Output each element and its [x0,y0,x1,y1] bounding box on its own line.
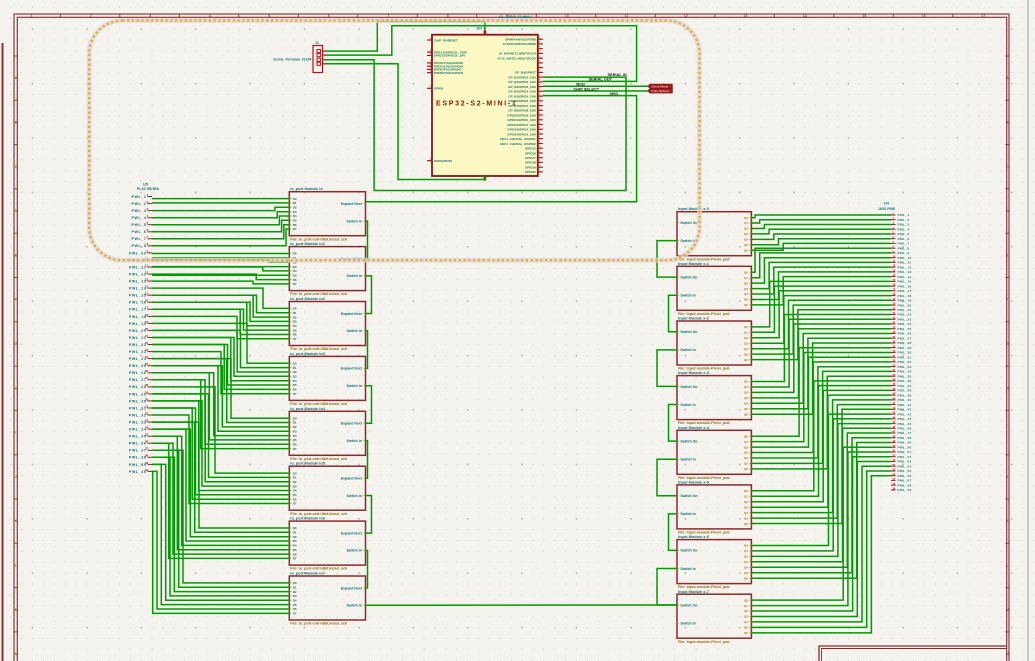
svg-text:D0: D0 [293,252,297,256]
svg-text:D7: D7 [293,337,297,341]
svg-text:PWL_25: PWL_25 [129,364,147,368]
svg-text:Input Module x-3: Input Module x-3 [678,370,710,375]
svg-text:GP_B3/GPIO3_CH0: GP_B3/GPIO3_CH0 [508,85,536,89]
svg-text:PWL_3: PWL_3 [131,209,146,213]
svg-text:Q0: Q0 [744,216,748,220]
svg-text:PWL_13: PWL_13 [129,280,147,284]
svg-text:GPIO19: GPIO19 [525,166,536,170]
svg-text:Q6: Q6 [744,249,748,253]
svg-text:PML_25: PML_25 [898,327,912,331]
svg-text:PML_37: PML_37 [898,384,912,388]
svg-text:GP_B4/GPNST: GP_B4/GPNST [515,71,536,75]
svg-text:PML_31: PML_31 [898,355,912,359]
svg-text:ESP32-S2-MINI-1: ESP32-S2-MINI-1 [436,101,518,108]
svg-text:PML_12: PML_12 [898,265,912,269]
svg-text:PWL_19: PWL_19 [129,322,147,326]
svg-text:D1: D1 [293,531,297,535]
svg-text:Switch In: Switch In [680,567,695,571]
svg-text:Q4: Q4 [744,347,748,351]
svg-text:M: M [15,608,18,612]
svg-text:io_port Module io2: io_port Module io2 [290,296,325,301]
svg-text:B: B [1006,121,1009,125]
svg-text:GP_B7/GPIO7_CH0: GP_B7/GPIO7_CH0 [508,104,536,108]
svg-text:PWL_17: PWL_17 [129,308,147,312]
svg-text:PWL_1: PWL_1 [131,195,146,199]
svg-text:PML_55: PML_55 [898,469,912,473]
svg-text:D3: D3 [293,320,297,324]
svg-text:Switch In: Switch In [680,348,695,352]
svg-text:Q1: Q1 [744,549,748,553]
svg-text:Q6: Q6 [744,358,748,362]
svg-text:PML_30: PML_30 [898,351,912,355]
svg-text:D5: D5 [293,219,297,223]
svg-text:PML_3: PML_3 [898,223,910,227]
svg-text:io_port Module io: io_port Module io [290,186,323,191]
svg-text:PML_53: PML_53 [898,460,912,464]
svg-text:10: 10 [565,14,569,18]
svg-text:Q5: Q5 [744,352,748,356]
svg-text:K: K [15,519,18,523]
svg-text:PWL_09: PWL_09 [129,251,147,255]
svg-text:Expand Next: Expand Next [341,422,363,426]
svg-text:M: M [1006,608,1009,612]
svg-text:D0: D0 [293,581,297,585]
svg-text:Q1: Q1 [744,385,748,389]
svg-text:D5: D5 [293,438,297,442]
svg-text:PML_29: PML_29 [898,346,912,350]
svg-text:SERIAL OUT: SERIAL OUT [589,77,613,82]
svg-text:PML_42: PML_42 [898,408,912,412]
svg-text:Q6: Q6 [744,522,748,526]
svg-text:Q4: Q4 [744,292,748,296]
svg-text:K: K [1006,519,1009,523]
svg-text:PWL_4: PWL_4 [131,216,146,220]
svg-text:io_port Module io7: io_port Module io7 [290,571,325,576]
svg-text:J1: J1 [315,41,319,45]
svg-text:C: C [1006,165,1009,169]
svg-text:G: G [15,342,18,346]
svg-text:PWL_18: PWL_18 [129,315,147,319]
svg-text:D7: D7 [293,447,297,451]
svg-text:D3: D3 [293,484,297,488]
svg-text:Switch On: Switch On [680,603,697,607]
svg-text:Q5: Q5 [744,243,748,247]
svg-text:PML_44: PML_44 [898,417,912,421]
svg-text:PML_32: PML_32 [898,360,912,364]
svg-text:G: G [1006,342,1009,346]
svg-text:Q2: Q2 [744,445,748,449]
svg-text:Clock Mode: Clock Mode [651,84,668,88]
svg-text:PML_18: PML_18 [898,294,912,298]
svg-text:Q2: Q2 [744,555,748,559]
svg-text:Q2: Q2 [744,227,748,231]
svg-text:PWL_7: PWL_7 [131,237,146,241]
svg-text:PML_13: PML_13 [898,270,912,274]
svg-text:Switch In: Switch In [680,512,695,516]
svg-text:PML_7: PML_7 [898,242,910,246]
svg-text:PWL_40: PWL_40 [129,470,147,474]
svg-text:File: Input-module-Plex4_pub: File: Input-module-Plex4_pub [678,640,730,644]
svg-text:Input Module x-5: Input Module x-5 [678,479,710,484]
svg-text:Switch In: Switch In [680,621,695,625]
svg-text:PML_33: PML_33 [898,365,912,369]
svg-text:PWL_5: PWL_5 [131,223,146,227]
svg-text:11: 11 [624,14,628,18]
svg-text:Q0: Q0 [744,325,748,329]
svg-text:D1: D1 [293,201,297,205]
svg-text:D1: D1 [293,311,297,315]
svg-text:PML_45: PML_45 [898,422,912,426]
svg-text:Switch In: Switch In [347,549,362,553]
svg-text:Q1: Q1 [744,604,748,608]
svg-text:CHIP SELECT: CHIP SELECT [574,86,600,91]
svg-text:PML_34: PML_34 [898,370,912,374]
svg-text:PML_58: PML_58 [898,483,912,487]
svg-text:Switch On: Switch On [680,549,697,553]
svg-text:CHIP_PU/RESET: CHIP_PU/RESET [434,38,458,42]
svg-text:Q5: Q5 [744,298,748,302]
svg-text:PWL_12: PWL_12 [129,272,147,276]
svg-text:GPIO16: GPIO16 [525,151,536,155]
svg-text:Switch In: Switch In [347,384,362,388]
svg-text:Q5: Q5 [744,571,748,575]
svg-text:Expand Next: Expand Next [341,531,363,535]
svg-text:8: 8 [447,14,449,18]
svg-text:D: D [15,209,18,213]
svg-text:PWL_20: PWL_20 [129,329,147,333]
svg-text:GPIO20: GPIO20 [525,170,536,174]
svg-text:PML_8: PML_8 [898,246,910,250]
svg-text:Q1: Q1 [744,276,748,280]
svg-text:Q6: Q6 [744,303,748,307]
svg-text:Expand Next: Expand Next [341,202,363,206]
svg-text:PML_51: PML_51 [898,450,912,454]
svg-text:Q3: Q3 [744,505,748,509]
svg-text:ADC1_CH1/SAL_2/GPIO1: ADC1_CH1/SAL_2/GPIO1 [500,137,536,141]
svg-text:Switch On: Switch On [680,221,697,225]
svg-text:Q3: Q3 [744,232,748,236]
svg-text:PWL_37: PWL_37 [129,449,147,453]
svg-text:D6: D6 [293,607,297,611]
svg-text:Switch In: Switch In [347,219,362,223]
svg-text:PML_59: PML_59 [898,488,912,492]
svg-text:D5: D5 [293,493,297,497]
svg-text:D: D [1006,209,1009,213]
svg-text:RXD/GPIO46: RXD/GPIO46 [434,159,452,163]
svg-text:A: A [15,76,18,80]
svg-text:PML_52: PML_52 [898,455,912,459]
svg-text:PWL_31: PWL_31 [129,406,147,410]
svg-text:PML_2: PML_2 [898,218,910,222]
svg-text:Q4: Q4 [744,238,748,242]
svg-text:Q2: Q2 [744,391,748,395]
svg-text:Q5: Q5 [744,626,748,630]
svg-text:Input Module x-1: Input Module x-1 [678,261,710,266]
svg-text:GP_B6/GPIO6_CH0: GP_B6/GPIO6_CH0 [508,99,536,103]
svg-text:B: B [15,121,18,125]
svg-text:Q3: Q3 [744,615,748,619]
svg-text:Only Reboot: Only Reboot [651,89,669,93]
svg-text:PML_20: PML_20 [898,303,912,307]
svg-text:I: I [15,431,16,435]
svg-text:Switch On: Switch On [680,494,697,498]
svg-text:Input Module x-0: Input Module x-0 [678,206,709,211]
svg-text:N: N [15,652,18,656]
svg-text:GP_B1/GPIO1_CH0: GP_B1/GPIO1_CH0 [508,75,536,79]
svg-text:U5: U5 [143,183,148,187]
svg-text:D5: D5 [293,383,297,387]
svg-text:PML_50: PML_50 [898,446,912,450]
svg-text:PWL_39: PWL_39 [129,463,147,467]
svg-text:PWL_15: PWL_15 [129,294,147,298]
svg-text:PWL_8: PWL_8 [131,244,146,248]
svg-text:GP_B5/GPIO5_CH0: GP_B5/GPIO5_CH0 [508,94,536,98]
svg-text:Input Module x-7: Input Module x-7 [678,589,709,594]
svg-text:5: 5 [268,14,270,18]
svg-text:Expand Next: Expand Next [341,477,363,481]
svg-text:Q4: Q4 [744,511,748,515]
svg-text:PML_36: PML_36 [898,379,912,383]
svg-text:PML_10: PML_10 [898,256,912,260]
svg-text:io_port Module io4: io_port Module io4 [290,406,325,411]
svg-text:PML_41: PML_41 [898,403,912,407]
svg-text:N: N [1006,652,1009,656]
svg-text:File: io_port-cntrl-8bit.kicad: File: io_port-cntrl-8bit.kicad_sch [290,622,348,626]
svg-text:Q2: Q2 [744,500,748,504]
svg-text:IO_B_/ANTCL4/IBJ/TOUCH: IO_B_/ANTCL4/IBJ/TOUCH [498,57,536,61]
svg-text:PWL_6: PWL_6 [131,230,146,234]
svg-text:J: J [1006,475,1008,479]
svg-text:D5: D5 [293,548,297,552]
svg-text:D7: D7 [293,557,297,561]
svg-text:13: 13 [743,14,747,18]
svg-text:Q3: Q3 [744,396,748,400]
svg-text:D1: D1 [293,366,297,370]
svg-text:7: 7 [387,14,389,18]
svg-text:Switch In: Switch In [680,294,695,298]
svg-text:PML_48: PML_48 [898,436,912,440]
svg-text:Q2: Q2 [744,609,748,613]
svg-text:PML_47: PML_47 [898,431,912,435]
svg-text:GPIO10/GPIO9_CH0: GPIO10/GPIO9_CH0 [507,113,536,117]
svg-text:H: H [1006,386,1009,390]
svg-text:Q0: Q0 [744,489,748,493]
svg-text:D3: D3 [293,210,297,214]
svg-text:D7: D7 [293,392,297,396]
svg-text:Q5: Q5 [744,516,748,520]
svg-text:D1: D1 [293,476,297,480]
svg-text:PML_27: PML_27 [898,336,912,340]
svg-text:SPIWP/ANTIO1/PSRB: SPIWP/ANTIO1/PSRB [505,38,537,42]
svg-text:C: C [15,165,18,169]
svg-text:PML_15: PML_15 [898,280,912,284]
svg-text:MISO: MISO [610,92,619,96]
svg-text:PML_39: PML_39 [898,393,912,397]
svg-text:Q4: Q4 [744,402,748,406]
svg-text:PML_24: PML_24 [898,322,912,326]
svg-text:Q0: Q0 [744,380,748,384]
svg-text:PML_49: PML_49 [898,441,912,445]
svg-text:16/IO PINS: 16/IO PINS [878,207,896,211]
svg-text:Q3: Q3 [744,451,748,455]
svg-text:PML_28: PML_28 [898,341,912,345]
svg-text:Switch On: Switch On [680,439,697,443]
svg-text:io_port Module io1: io_port Module io1 [290,241,325,246]
svg-text:PWL_33: PWL_33 [129,421,147,425]
svg-text:D7: D7 [293,282,297,286]
svg-text:PML_54: PML_54 [898,464,912,468]
svg-text:GP_B8/GPIO8_CH0: GP_B8/GPIO8_CH0 [508,109,536,113]
svg-text:Q6: Q6 [744,576,748,580]
svg-text:Switch On: Switch On [680,385,697,389]
svg-text:Q4: Q4 [744,456,748,460]
svg-text:PWL_21: PWL_21 [129,336,147,340]
svg-text:PML_11: PML_11 [898,261,912,265]
svg-text:GP_B2/GPIO2_CH0: GP_B2/GPIO2_CH0 [508,80,536,84]
svg-text:GPIO18: GPIO18 [525,161,536,165]
svg-text:Q6: Q6 [744,631,748,635]
svg-text:Q3: Q3 [744,341,748,345]
svg-text:PML_5: PML_5 [898,232,910,236]
svg-text:D7: D7 [293,612,297,616]
svg-text:PML_9: PML_9 [898,251,910,255]
svg-text:Q1: Q1 [744,331,748,335]
svg-text:PML_17: PML_17 [898,289,912,293]
svg-text:Expand Next: Expand Next [341,367,363,371]
svg-text:16: 16 [922,14,926,18]
svg-text:J: J [15,475,17,479]
svg-text:PML_16: PML_16 [898,284,912,288]
svg-text:PML_22: PML_22 [898,313,912,317]
svg-text:PML_21: PML_21 [898,308,912,312]
svg-text:Q1: Q1 [744,495,748,499]
svg-text:D5: D5 [293,328,297,332]
svg-text:PWL_30: PWL_30 [129,399,147,403]
svg-text:4: 4 [209,14,211,18]
svg-text:PML_38: PML_38 [898,389,912,393]
svg-text:PML_4: PML_4 [898,227,910,231]
svg-text:Switch In: Switch In [680,403,695,407]
svg-text:PWL_29: PWL_29 [129,392,147,396]
svg-text:PWL_22: PWL_22 [129,343,147,347]
svg-text:Input Module x-2: Input Module x-2 [678,316,710,321]
svg-text:2: 2 [90,14,92,18]
svg-text:Switch In: Switch In [347,494,362,498]
svg-text:PML_57: PML_57 [898,479,912,483]
svg-text:Expand Next: Expand Next [341,312,363,316]
svg-text:Q4: Q4 [744,566,748,570]
svg-text:GPIO17: GPIO17 [525,156,536,160]
svg-text:io_port Module io6: io_port Module io6 [290,516,325,521]
svg-text:PLA2 GB BHL: PLA2 GB BHL [137,187,160,191]
svg-text:12: 12 [684,14,688,18]
svg-text:D3: D3 [293,594,297,598]
svg-text:PML_1: PML_1 [898,213,910,217]
svg-text:1: 1 [30,14,32,18]
svg-text:GP_B4/GPIO4_CH0: GP_B4/GPIO4_CH0 [508,90,536,94]
svg-text:D3: D3 [293,429,297,433]
svg-text:Switch In: Switch In [347,439,362,443]
svg-text:3: 3 [149,14,151,18]
svg-text:Q6: Q6 [744,412,748,416]
svg-text:GPIO0: GPIO0 [434,87,444,91]
svg-text:Screw_Terminal_01x04: Screw_Terminal_01x04 [273,58,311,62]
svg-text:PML_35: PML_35 [898,374,912,378]
svg-text:Q3: Q3 [744,560,748,564]
svg-text:17: 17 [981,14,985,18]
svg-text:D1: D1 [293,421,297,425]
svg-text:Q1: Q1 [744,440,748,444]
svg-text:CLOCK/ANTIO2m/PWB: CLOCK/ANTIO2m/PWB [503,42,537,46]
svg-text:A: A [1006,76,1009,80]
svg-text:PML_56: PML_56 [898,474,912,478]
svg-text:PWL_28: PWL_28 [129,385,147,389]
svg-text:GPIO11/GPIO1_CH0: GPIO11/GPIO1_CH0 [507,118,536,122]
svg-text:Input Module x-6: Input Module x-6 [678,534,710,539]
svg-text:6: 6 [328,14,330,18]
svg-text:PWL_16: PWL_16 [129,301,147,305]
svg-text:Switch In: Switch In [347,274,362,278]
svg-text:PWL_11: PWL_11 [129,265,146,269]
svg-text:Q2: Q2 [744,336,748,340]
svg-text:Q0: Q0 [744,544,748,548]
svg-text:Input Module x-4: Input Module x-4 [678,425,710,430]
svg-text:D4: D4 [293,599,297,603]
svg-text:Q2: Q2 [744,281,748,285]
svg-text:D7: D7 [293,502,297,506]
svg-text:IO_B4/ANTCL3/IN/TOUCH: IO_B4/ANTCL3/IN/TOUCH [499,52,536,56]
svg-text:Q5: Q5 [744,407,748,411]
svg-text:PML_43: PML_43 [898,412,912,416]
svg-text:PWL_32: PWL_32 [129,413,147,417]
svg-text:Q4: Q4 [744,620,748,624]
svg-text:Expand Next: Expand Next [341,586,363,590]
svg-text:Switch On: Switch On [680,330,697,334]
svg-text:I: I [1006,431,1007,435]
svg-text:Q0: Q0 [744,270,748,274]
svg-text:15: 15 [862,14,866,18]
svg-text:D5: D5 [293,273,297,277]
svg-text:Q6: Q6 [744,467,748,471]
svg-text:PWL_38: PWL_38 [129,456,147,460]
svg-text:D3: D3 [293,375,297,379]
svg-text:PWL_35: PWL_35 [129,435,147,439]
svg-text:PML_26: PML_26 [898,332,912,336]
svg-text:ADC1_CH2/SAL_2/GPIO2: ADC1_CH2/SAL_2/GPIO2 [500,142,536,146]
svg-text:H: H [15,386,18,390]
svg-text:3V3: 3V3 [476,27,482,31]
svg-text:MTMS/JTAG/GPIO42: MTMS/JTAG/GPIO42 [434,71,463,75]
svg-text:14: 14 [803,14,807,18]
svg-text:PML_46: PML_46 [898,427,912,431]
svg-text:PML_14: PML_14 [898,275,912,279]
svg-text:PWL_26: PWL_26 [129,371,147,375]
svg-text:Switch In: Switch In [680,458,695,462]
svg-text:D7: D7 [293,227,297,231]
svg-text:PWL_36: PWL_36 [129,442,147,446]
svg-text:PWL_23: PWL_23 [129,350,147,354]
svg-text:io_port Module io3: io_port Module io3 [290,351,325,356]
svg-text:PML_40: PML_40 [898,398,912,402]
svg-text:PWL_27: PWL_27 [129,378,147,382]
svg-text:Switch In: Switch In [347,329,362,333]
svg-text:Q1: Q1 [744,221,748,225]
svg-text:PML_6: PML_6 [898,237,910,241]
svg-text:Q0: Q0 [744,598,748,602]
svg-text:PML_19: PML_19 [898,299,912,303]
svg-text:GPIO15: GPIO15 [525,147,536,151]
svg-text:Switch In: Switch In [347,604,362,608]
